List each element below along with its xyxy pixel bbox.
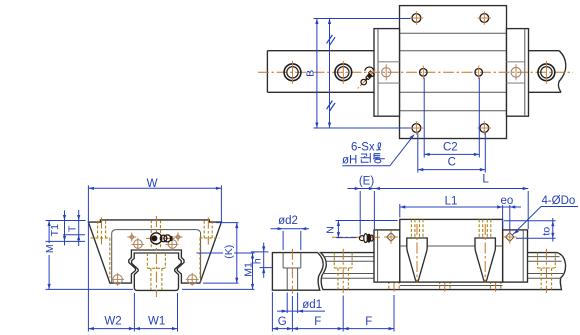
svg-text:W: W (147, 178, 158, 190)
svg-text:øH: øH (342, 154, 357, 166)
svg-text:(E): (E) (359, 176, 375, 188)
svg-text:F: F (314, 316, 321, 328)
svg-text:T: T (67, 225, 79, 232)
svg-text:ød1: ød1 (302, 299, 322, 311)
svg-text:4-ØDo: 4-ØDo (541, 195, 575, 207)
svg-text:to: to (540, 227, 552, 236)
svg-text:M: M (44, 244, 56, 253)
svg-text:W1: W1 (148, 316, 165, 328)
svg-text:6-Sx: 6-Sx (351, 141, 375, 153)
svg-text:N: N (325, 226, 337, 234)
svg-text:L: L (482, 174, 489, 186)
svg-text:C: C (448, 157, 456, 169)
svg-text:W2: W2 (104, 316, 121, 328)
svg-text:C2: C2 (443, 142, 458, 154)
svg-text:eo: eo (501, 195, 514, 207)
svg-text:T1: T1 (49, 224, 61, 236)
svg-text:G: G (278, 316, 287, 328)
svg-text:h: h (251, 258, 263, 264)
svg-text:L1: L1 (445, 196, 458, 208)
svg-text:ød2: ød2 (278, 215, 298, 227)
svg-text:F: F (365, 316, 372, 328)
svg-text:B: B (304, 70, 316, 77)
svg-text:(K): (K) (223, 245, 235, 259)
